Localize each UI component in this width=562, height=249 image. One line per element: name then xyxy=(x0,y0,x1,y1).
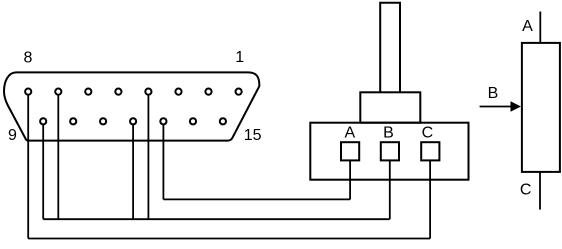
pin 6 xyxy=(85,89,91,95)
wire B up to pad B xyxy=(389,161,391,219)
legend lead C xyxy=(539,172,541,210)
svg-text:1: 1 xyxy=(235,49,244,66)
pin 15 xyxy=(220,118,226,124)
wire run3 pin8 to C xyxy=(28,238,430,240)
wire run2 pin9 to B xyxy=(43,218,390,220)
wire pin8 down xyxy=(27,95,29,238)
svg-text:C: C xyxy=(520,181,532,198)
pin 7 xyxy=(55,89,61,95)
terminal pad B xyxy=(381,142,399,160)
legend lead B xyxy=(480,106,512,108)
pin 1 xyxy=(236,89,242,95)
device U1 heatsink tab xyxy=(380,3,400,93)
legend lead B arrowhead xyxy=(511,101,522,112)
pin 10 xyxy=(70,118,76,124)
legend lead A xyxy=(539,12,541,43)
pin 14 xyxy=(190,118,196,124)
svg-text:A: A xyxy=(344,125,355,142)
device U1 base xyxy=(310,123,468,180)
legend transistor body xyxy=(522,43,560,172)
terminal pad C xyxy=(421,142,439,160)
svg-text:9: 9 xyxy=(8,127,17,144)
svg-text:A: A xyxy=(522,18,533,35)
terminal pad A xyxy=(341,142,359,160)
pin 3 xyxy=(175,89,181,95)
device U1 body xyxy=(360,92,420,122)
wire pin4 down xyxy=(147,95,149,219)
pin 4 xyxy=(145,89,151,95)
wire C up to pad C xyxy=(429,161,431,239)
pin 12 xyxy=(130,118,136,124)
wire pin9 down xyxy=(42,125,44,219)
connector J1 DB-15 shell xyxy=(4,72,259,140)
wire pin12 down xyxy=(132,125,134,219)
pin 5 xyxy=(115,89,121,95)
svg-text:B: B xyxy=(383,125,394,142)
wire run1 pin13 to A xyxy=(163,198,350,200)
svg-text:B: B xyxy=(488,85,499,102)
wire pin13 down xyxy=(162,125,164,199)
pin 13 xyxy=(160,118,166,124)
svg-text:C: C xyxy=(422,125,434,142)
svg-text:15: 15 xyxy=(244,127,262,144)
wire pin7 down xyxy=(57,95,59,219)
pin 9 xyxy=(40,118,46,124)
pin 11 xyxy=(100,118,106,124)
svg-text:8: 8 xyxy=(23,50,32,67)
pin 2 xyxy=(205,89,211,95)
pin 8 xyxy=(25,89,31,95)
wire A up to pad A xyxy=(349,161,351,199)
